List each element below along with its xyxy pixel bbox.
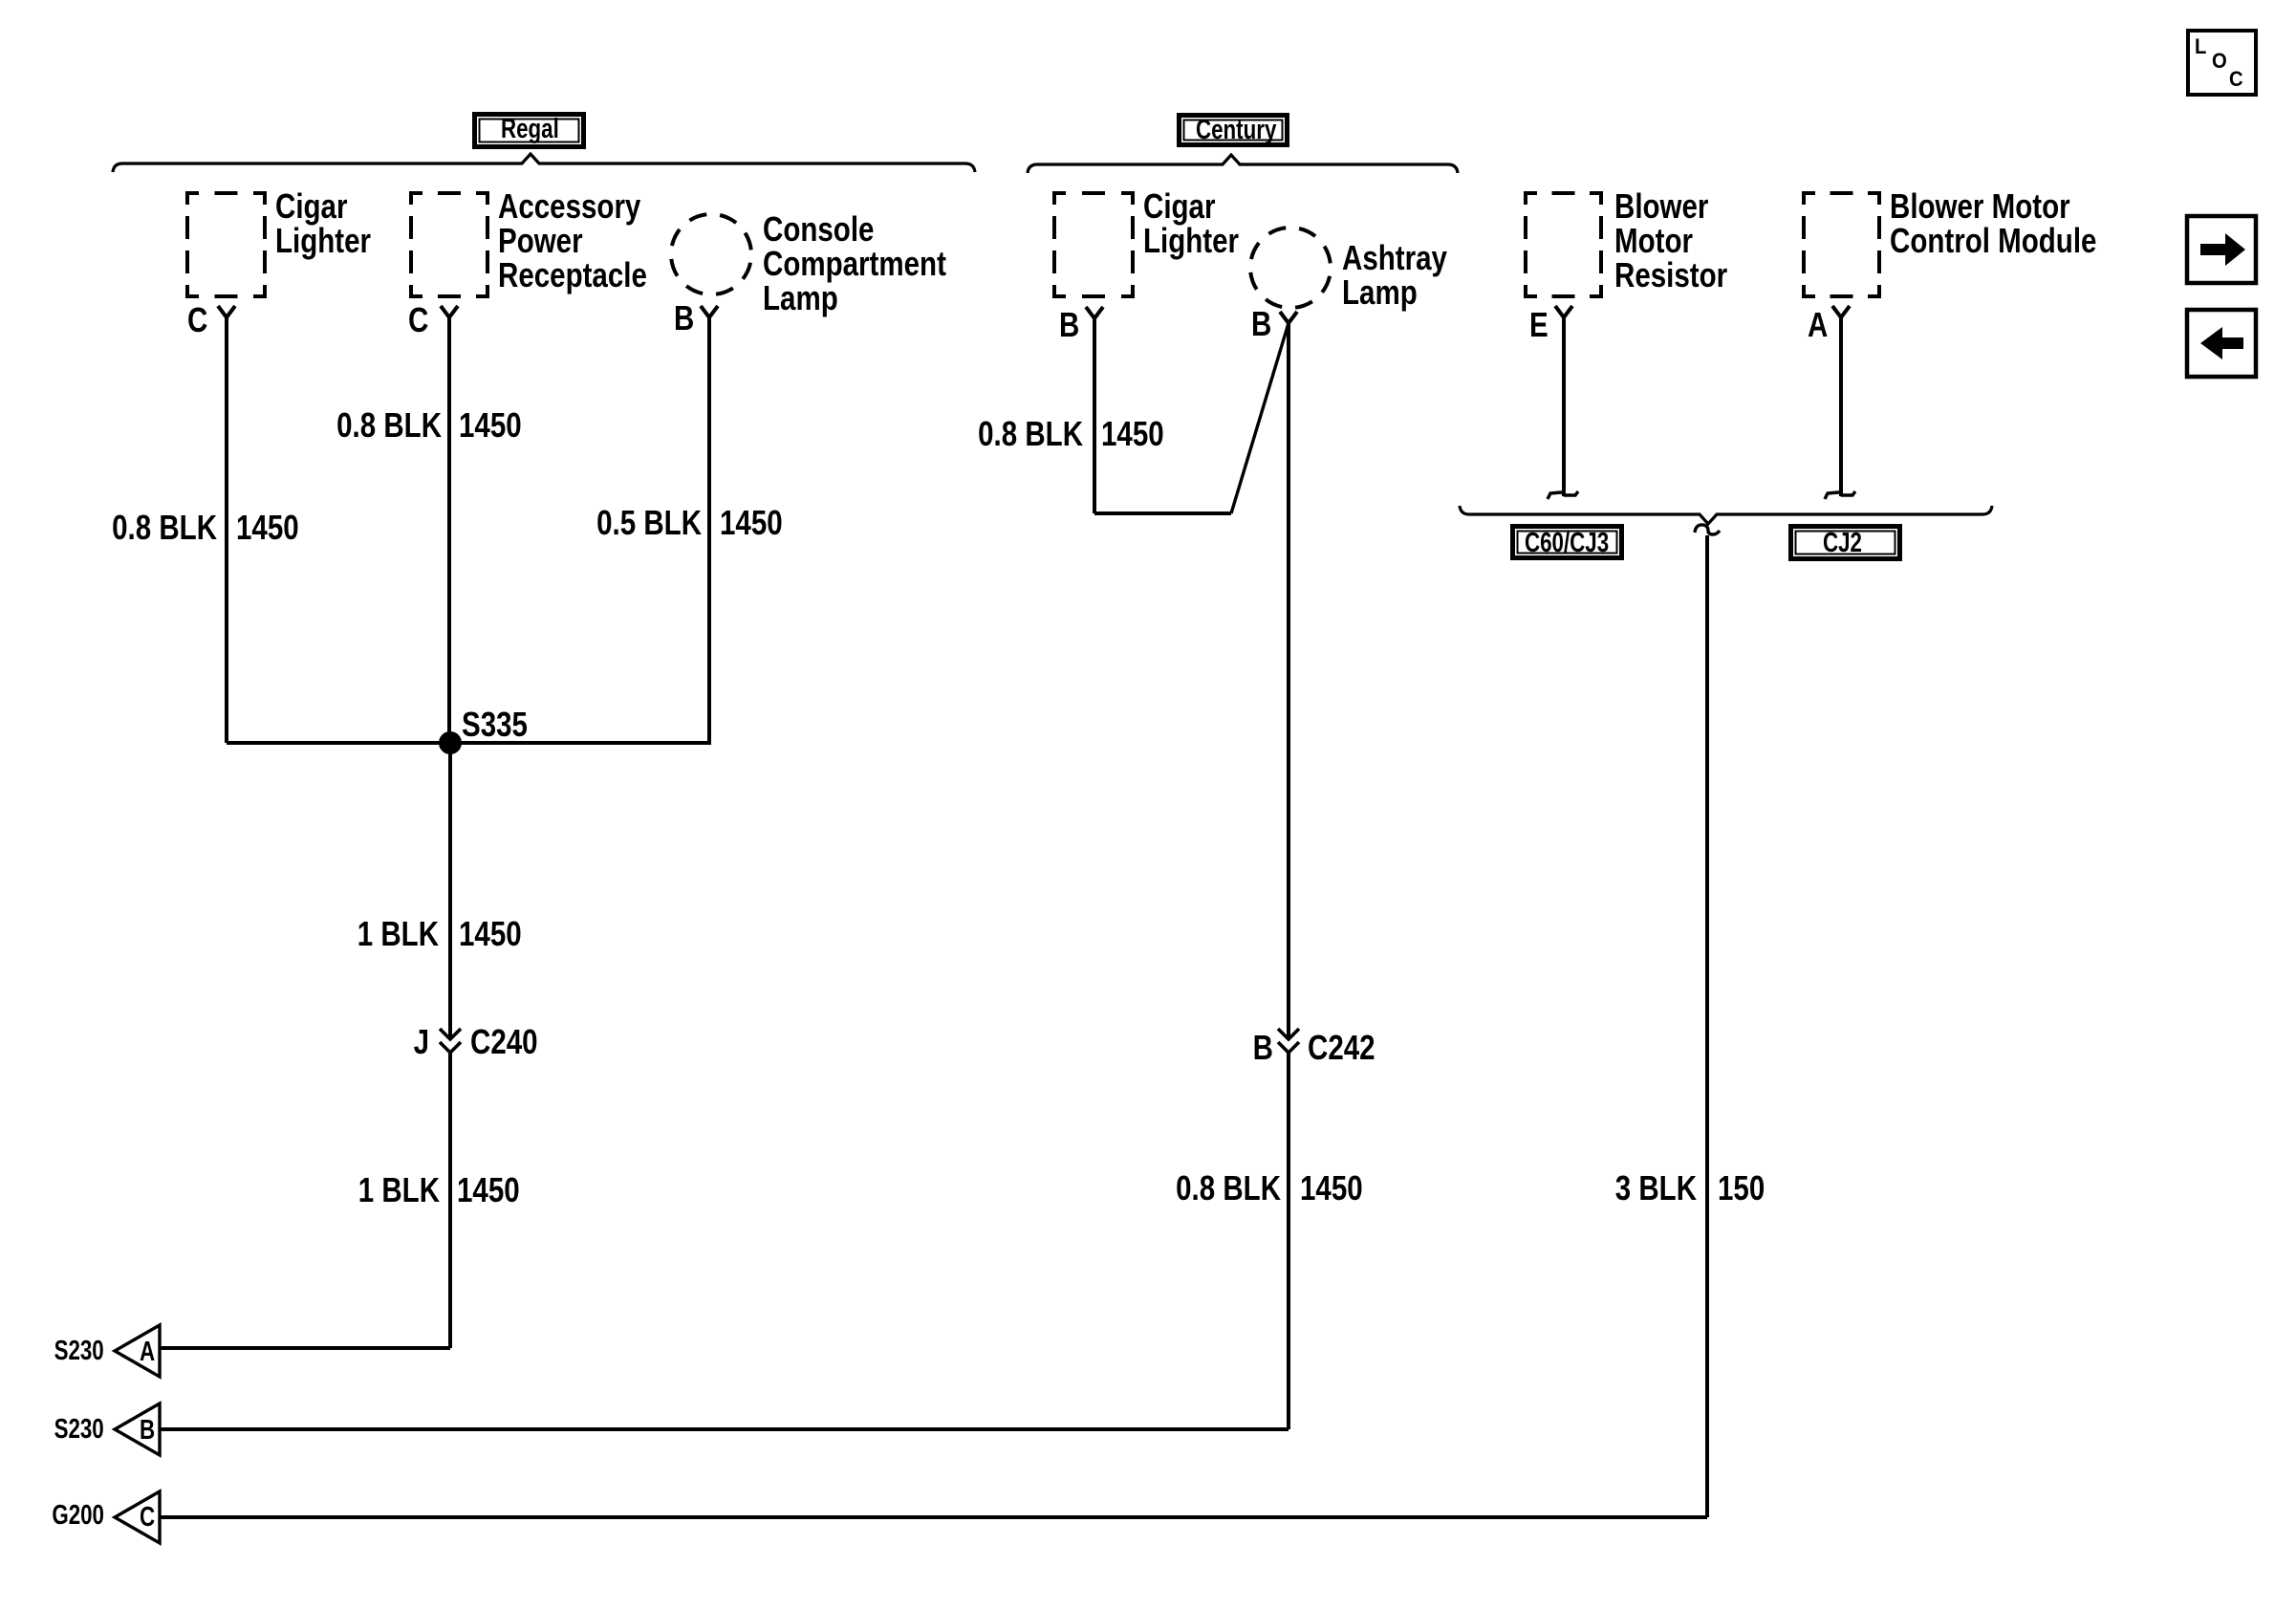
connector label C60/CJ3 [1525,530,1609,557]
wire C240 to S230 A [448,1053,452,1348]
blower motor resistor box [1524,191,1603,298]
pin B ashtray lamp [1280,312,1297,323]
splice callout S230 A triangle [115,1325,160,1377]
wire value 0.8 BLK [978,417,1083,451]
Century group brace [1028,155,1458,173]
accessory power receptacle box [409,191,489,298]
label Century [1196,117,1276,144]
label Blower Motor Control Module [1890,189,2096,258]
circuit number 1450 [236,511,299,545]
Regal group brace [113,154,975,172]
connector C240 [440,1029,461,1053]
pin letter B ashtray lamp [1251,307,1271,341]
pin letter B in triangle [140,1417,155,1445]
pin letter C in triangle [140,1504,155,1532]
circuit number 150 [1718,1171,1765,1206]
splice callout S230 B triangle [115,1403,160,1455]
pin letter C cigar lighter [187,303,207,337]
wire value 1 BLK [358,1173,440,1207]
wire value 0.5 BLK [596,506,702,540]
wire end hook E [1548,491,1578,499]
wire ashtray B to C242 [1287,323,1290,1039]
pin B console lamp [701,306,718,317]
wire to G200 horizontal [160,1515,1707,1519]
connector name C242 [1308,1031,1375,1065]
wire E down to C60/CJ3 [1562,317,1566,496]
LOC letter L [2195,36,2206,57]
back arrow box [2187,310,2256,377]
LOC legend box [2188,31,2256,95]
label Regal [501,116,559,143]
label Blower Motor Resistor [1614,189,1727,293]
Regal label box [475,115,584,147]
ground name G200 [52,1502,104,1530]
wire S335 to C240 [448,743,452,1039]
pin letter B console lamp [674,301,694,336]
C60/CJ3 label box [1513,527,1622,558]
pin letter B cigar lighter Century [1059,308,1079,342]
connector C242 [1278,1029,1299,1053]
splice name S230 [54,1416,104,1444]
wire console lamp B to S335 [707,317,711,743]
ashtray lamp [1243,220,1338,315]
console compartment lamp [663,207,759,302]
wire cigar lighter C to S335 [225,317,228,743]
LOC letter O [2212,51,2227,72]
splice name S230 [54,1338,104,1365]
connector label CJ2 [1823,530,1862,557]
pin letter J [414,1025,429,1059]
label Accessory Power Receptacle [498,189,647,293]
Century label box [1180,116,1288,145]
pin letter A in triangle [140,1338,155,1366]
label Console Compartment Lamp [763,212,946,315]
label Ashtray Lamp [1342,241,1447,310]
wire value 0.8 BLK [336,408,442,443]
pin letter C accessory receptacle [408,303,428,337]
circuit number 1450 [459,408,522,443]
wire to S230 B horizontal [160,1427,1289,1431]
wire brace to G200 [1705,535,1709,1517]
wire diagonal to ashtray pin [1231,323,1289,513]
CJ2 label box [1791,527,1900,559]
wire value 0.8 BLK [1176,1171,1281,1206]
pin letter E blower motor resistor [1529,308,1549,342]
blower motor control module box [1802,191,1881,298]
wire value 1 BLK [357,917,439,951]
circuit number 1450 [720,506,783,540]
pin A blower motor control module [1832,306,1850,317]
label Cigar Lighter (Century) [1143,189,1239,258]
wire C242 to S230 B [1287,1053,1290,1429]
connector group brace [1460,506,1992,524]
wire S335 horizontal [227,741,711,745]
wire Century cigar B down [1093,318,1096,513]
circuit number 1450 [1300,1171,1363,1206]
wire accessory C to S335 [447,317,451,743]
wire end hook A [1825,491,1855,499]
pin C accessory receptacle [441,306,458,317]
wire Century cigar horizontal [1094,511,1231,515]
wire value 3 BLK [1615,1171,1697,1206]
wire value 0.8 BLK [112,511,217,545]
ground callout G200 C triangle [115,1491,160,1543]
pin letter A blower motor control module [1808,308,1828,342]
circuit number 1450 [457,1173,520,1207]
label Cigar Lighter (Regal) [275,189,371,258]
cigar lighter (Century) box [1052,191,1135,298]
pin E blower motor resistor [1555,306,1572,317]
wire start curl below brace [1695,525,1720,534]
circuit number 1450 [459,917,522,951]
pin B cigar lighter Century [1086,307,1103,318]
pin C cigar lighter [218,306,235,317]
connector name C240 [470,1025,538,1059]
pin letter B [1253,1031,1273,1065]
wire A down to CJ2 [1839,317,1843,496]
circuit number 1450 [1101,417,1164,451]
forward arrow box [2187,216,2256,283]
wire to S230 A horizontal [160,1346,450,1350]
splice S335 junction dot [439,731,462,754]
cigar lighter (Regal) box [185,191,267,298]
LOC letter C [2229,69,2243,90]
splice name S335 [462,707,528,742]
